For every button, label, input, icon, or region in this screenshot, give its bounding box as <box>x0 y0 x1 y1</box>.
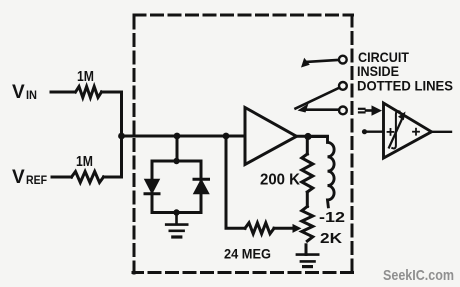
switch contact B (middle, open circle) <box>339 82 347 90</box>
svg-text:-12: -12 <box>319 209 345 226</box>
value label 2K <box>320 230 342 247</box>
potentiometer R5 2K <box>302 207 313 241</box>
op-amp U2 (equivalent amplifier triangle) <box>384 103 432 158</box>
diode D1 (cathode down) <box>145 180 159 194</box>
svg-text:SeekIC.com: SeekIC.com <box>383 267 454 284</box>
node diode branch <box>174 133 181 140</box>
resistor R4 200K (upper) <box>302 137 313 193</box>
wire VIN lead <box>51 91 75 94</box>
node U1 output <box>304 133 311 140</box>
wire feedback down leg <box>226 136 245 228</box>
svg-text:IN: IN <box>26 88 37 102</box>
svg-text:DOTTED LINES: DOTTED LINES <box>357 78 453 94</box>
svg-text:V: V <box>12 167 25 188</box>
wire R3 to wiper with arrowhead <box>274 224 302 233</box>
wire R4 to potentiometer <box>306 192 309 206</box>
svg-text:200 K: 200 K <box>260 172 300 189</box>
ground (diode clamp) <box>166 213 187 238</box>
integrator glyph inside U2 <box>392 111 399 148</box>
resistor R3 24 MEG <box>245 223 274 234</box>
wire R2 to summing node <box>104 136 122 177</box>
plus sign (left input) inside U2 <box>388 129 394 135</box>
value label 24 MEG <box>224 245 271 261</box>
node diode box bottom <box>173 209 179 215</box>
svg-text:24 MEG: 24 MEG <box>224 245 271 261</box>
svg-text:2K: 2K <box>320 230 342 247</box>
switch wiper arm (diagonal) with arrowhead <box>296 88 340 113</box>
svg-text:1M: 1M <box>77 68 94 85</box>
equivalence mark = <box>359 109 365 113</box>
node U2 input stub <box>362 129 367 134</box>
dashed enclosure box (circuit inside dotted lines) <box>133 15 353 273</box>
wire U1 output <box>297 135 328 138</box>
switch contact A (top, open circle) <box>339 56 347 64</box>
wire VREF lead <box>52 176 72 179</box>
switch arm A with arrowhead <box>301 58 339 68</box>
wire switch common <box>303 108 339 111</box>
wire R1 to summing node <box>102 92 122 136</box>
node feedback takeoff <box>223 133 230 140</box>
svg-text:1M: 1M <box>76 153 93 170</box>
supply label -12 <box>319 209 345 226</box>
value label 200 K <box>260 172 300 189</box>
value label 1M (R1) <box>77 68 94 85</box>
watermark SeekIC.com <box>383 267 454 284</box>
plus sign (right) inside U2 <box>413 129 419 135</box>
wire to diode clamp <box>176 136 179 161</box>
annotation text CIRCUIT INSIDE DOTTED LINES <box>357 49 453 94</box>
wire pot to ground <box>305 245 308 255</box>
label VREF <box>12 167 47 188</box>
diode D2 (cathode up) <box>194 179 209 193</box>
node diode box top <box>173 158 179 164</box>
value label 1M (R2) <box>76 153 93 170</box>
wire U2 input <box>365 130 384 132</box>
wire main input line to amplifier <box>122 135 246 138</box>
svg-text:V: V <box>12 82 25 103</box>
svg-text:REF: REF <box>26 173 47 187</box>
pointer arrow to U2 <box>366 105 382 115</box>
resistor R1 1M <box>76 87 102 98</box>
node summing junction <box>118 133 125 140</box>
label VIN <box>12 82 37 103</box>
switch contact C (bottom, open circle) <box>339 107 347 115</box>
relay coil L1 <box>308 137 334 207</box>
diode clamp loop box <box>152 161 201 213</box>
op-amp U1 (main amplifier triangle) <box>245 108 297 165</box>
wire U2 output <box>432 131 452 133</box>
adjust arrow inside U2 <box>389 112 406 148</box>
ground (potentiometer) <box>297 255 318 267</box>
resistor R2 1M <box>72 172 104 183</box>
